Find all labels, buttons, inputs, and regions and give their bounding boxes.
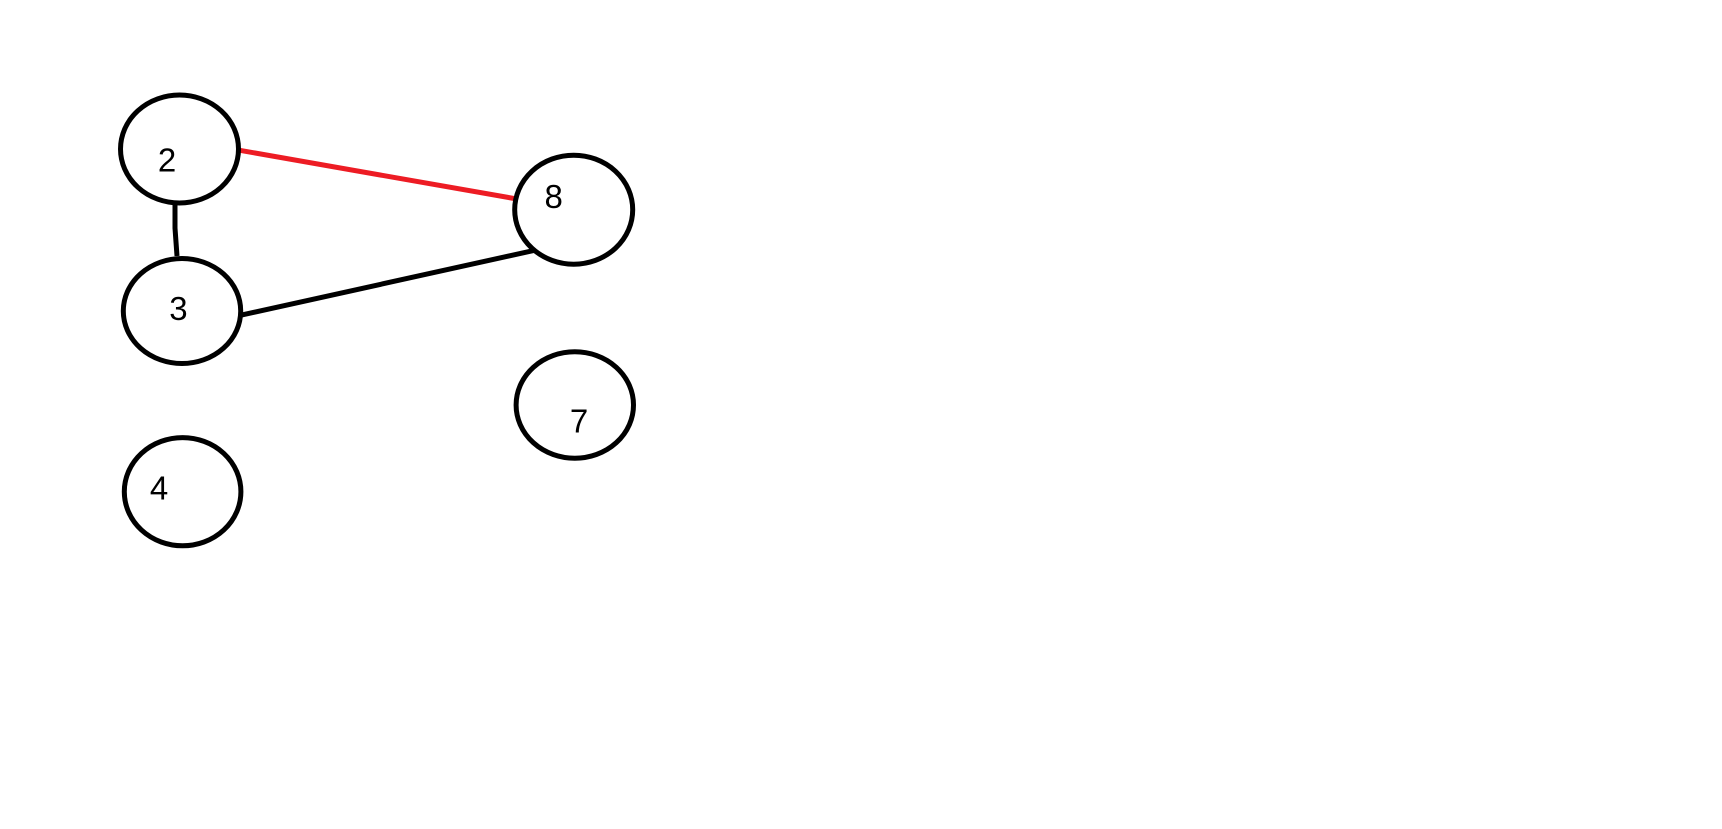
svg-text:3: 3 — [169, 290, 187, 327]
svg-text:4: 4 — [150, 470, 168, 507]
node 4 — [124, 438, 241, 546]
node 8 — [515, 155, 633, 264]
svg-text:8: 8 — [545, 178, 563, 215]
wire edge 3-8 — [205, 247, 550, 323]
wire edge 2-8 (red) — [205, 144, 550, 205]
node 3 — [123, 259, 240, 364]
wire edge 2-3 — [175, 160, 177, 256]
node 2 — [121, 95, 239, 203]
svg-text:2: 2 — [158, 142, 176, 179]
svg-text:7: 7 — [570, 403, 588, 440]
node 7 — [516, 352, 633, 458]
